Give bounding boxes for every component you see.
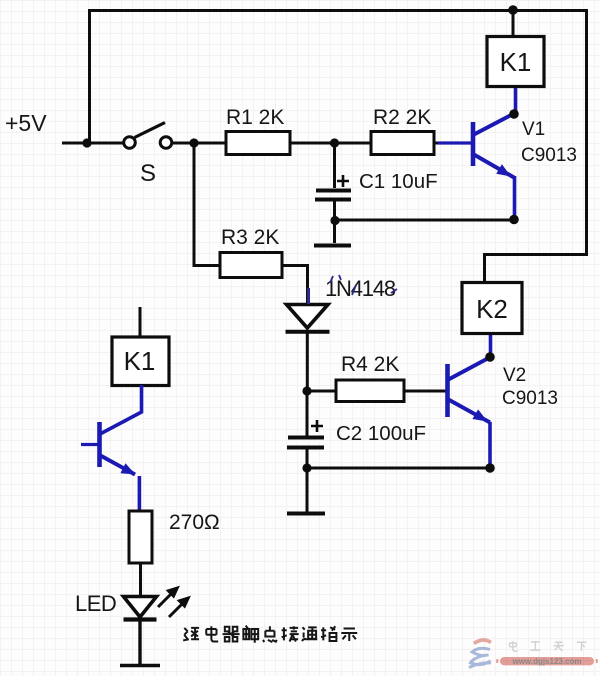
wire: R3 to diode xyxy=(282,264,308,304)
junction: diode / R4 / C2 xyxy=(302,386,311,395)
wire: right rail from top rail down to relay K2 xyxy=(485,9,587,282)
LED xyxy=(120,597,160,667)
ground stub below C1 xyxy=(314,201,351,246)
svg-text:1N4148: 1N4148 xyxy=(325,276,396,301)
svg-text:C9013: C9013 xyxy=(502,388,558,409)
svg-text:+5V: +5V xyxy=(5,110,47,136)
LED emission arrows xyxy=(158,587,190,618)
svg-text:R3 2K: R3 2K xyxy=(221,226,279,249)
resistor 270ohm xyxy=(129,511,152,563)
watermark logo xyxy=(469,640,491,668)
watermark 电工天下 (drawn glyphs) xyxy=(510,641,587,651)
svg-text:R2 2K: R2 2K xyxy=(373,106,431,129)
transistor V2 xyxy=(448,334,491,468)
svg-text:LED: LED xyxy=(75,591,116,616)
junction: V1 collector to K1 xyxy=(509,109,519,119)
ground below C2 xyxy=(306,468,309,512)
capacitor C2 xyxy=(287,391,324,468)
svg-text:C2 100uF: C2 100uF xyxy=(336,422,426,445)
svg-text:K2: K2 xyxy=(476,294,508,324)
junction: V2 collector to K2 xyxy=(485,352,495,362)
relay K2 xyxy=(462,283,522,334)
resistor R4 xyxy=(336,380,404,402)
wire: R4 to V2 base xyxy=(404,390,447,393)
wire: switch to R1 xyxy=(172,142,226,145)
wire: R1 to R2 xyxy=(290,142,371,145)
svg-text:S: S xyxy=(140,160,156,187)
svg-text:C1 10uF: C1 10uF xyxy=(359,170,438,193)
svg-text:C9013: C9013 xyxy=(521,145,577,166)
resistor R1 xyxy=(226,132,290,155)
svg-text:V1: V1 xyxy=(522,119,545,140)
relay K1 coil (bottom left) xyxy=(139,307,142,337)
wire: top rail to K1 xyxy=(512,9,515,36)
wire: R2 to V1 base xyxy=(434,142,444,145)
wire: top rail xyxy=(88,9,588,12)
svg-text:V2: V2 xyxy=(503,365,526,386)
wire: R3 branch vertical xyxy=(194,143,220,266)
watermark banner www.dgjs123.com xyxy=(497,657,597,666)
wire: junction to R4 xyxy=(307,390,336,393)
wire: emitter row C1 to V1 xyxy=(335,219,514,222)
svg-text:www.dgjs123.com: www.dgjs123.com xyxy=(511,657,581,666)
junction: C1 top xyxy=(330,138,339,147)
junction: V1 emitter row xyxy=(509,215,519,225)
svg-text:K1: K1 xyxy=(500,47,532,77)
wire: V2 emitter row xyxy=(307,467,490,470)
transistor Q (LED driver) xyxy=(81,385,142,511)
junction: V2 emitter row xyxy=(485,463,495,473)
resistor R2 xyxy=(371,132,434,155)
svg-text:R1 2K: R1 2K xyxy=(226,106,284,129)
junction: +5V row with left drop xyxy=(82,138,91,147)
svg-text:270Ω: 270Ω xyxy=(169,511,220,534)
junction: C1 / emitter row xyxy=(330,216,339,225)
svg-text:K1: K1 xyxy=(124,346,156,376)
resistor R3 xyxy=(220,253,282,278)
caption 继电器触点接通指示 (drawn glyphs) xyxy=(183,626,357,643)
wire: left drop from top rail to +5V row xyxy=(88,9,91,143)
relay K1 (top right) xyxy=(487,37,544,87)
diode 1N4148 xyxy=(286,305,330,392)
junction: top rail / K1 xyxy=(508,5,518,15)
capacitor C1 xyxy=(315,143,351,200)
junction: switch output / R3 branch xyxy=(189,138,198,147)
wire: +5V row stub xyxy=(62,142,123,145)
switch S xyxy=(124,123,172,149)
junction: C2 / emitter row xyxy=(302,463,311,472)
transistor V1 xyxy=(438,86,516,219)
wire: resistor to LED xyxy=(139,563,142,596)
svg-text:R4 2K: R4 2K xyxy=(341,353,399,376)
